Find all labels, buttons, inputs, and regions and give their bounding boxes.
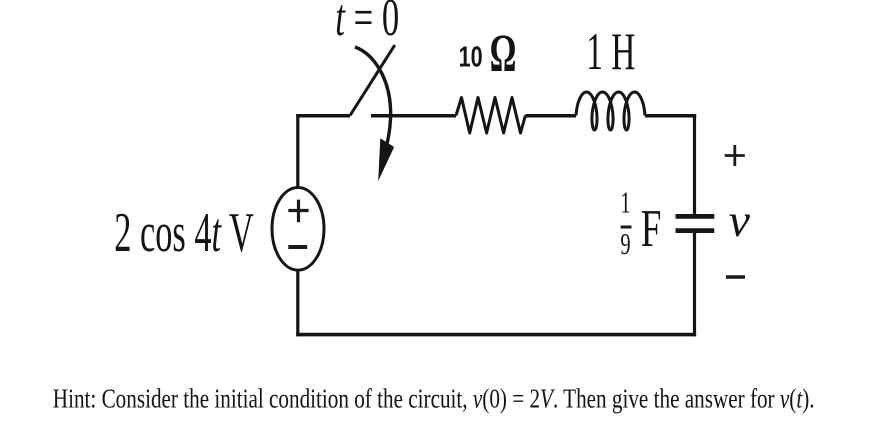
svg-text:1 H: 1 H (586, 22, 635, 81)
svg-text:Hint: Consider the initial con: Hint: Consider the initial condition of … (53, 384, 815, 414)
wire right vertical below capacitor (693, 233, 696, 336)
wire switch right contact to resistor (371, 114, 456, 118)
source minus sign (288, 245, 307, 249)
resistor R 10ohm zigzag (456, 98, 525, 134)
svg-text:Ω: Ω (490, 23, 517, 83)
wire top-left horizontal (296, 114, 350, 118)
wire bottom rail (296, 333, 696, 337)
capacitor polarity minus (726, 275, 745, 279)
wire resistor to inductor (525, 114, 576, 118)
fraction bar (621, 226, 632, 229)
source plus sign (288, 200, 308, 247)
capacitor polarity plus (725, 145, 745, 277)
wire left vertical below source (296, 271, 299, 336)
svg-text:10: 10 (459, 42, 483, 74)
svg-text:9: 9 (620, 227, 630, 261)
switch blade (350, 45, 395, 116)
svg-text:1: 1 (620, 185, 630, 219)
svg-text:F: F (641, 198, 662, 257)
wire left vertical above source (296, 114, 299, 186)
svg-text:v: v (729, 196, 751, 247)
capacitor C plates (676, 216, 715, 230)
inductor L 1H coil (576, 92, 645, 130)
svg-text:t = 0: t = 0 (335, 0, 399, 47)
switch arrow arc (355, 47, 391, 144)
voltage source ellipse (272, 188, 324, 271)
switch arrowhead (378, 138, 394, 181)
svg-text:2 cos 4t V: 2 cos 4t V (114, 203, 254, 264)
wire inductor to top-right corner (645, 114, 696, 118)
wire right vertical above capacitor (693, 114, 696, 214)
